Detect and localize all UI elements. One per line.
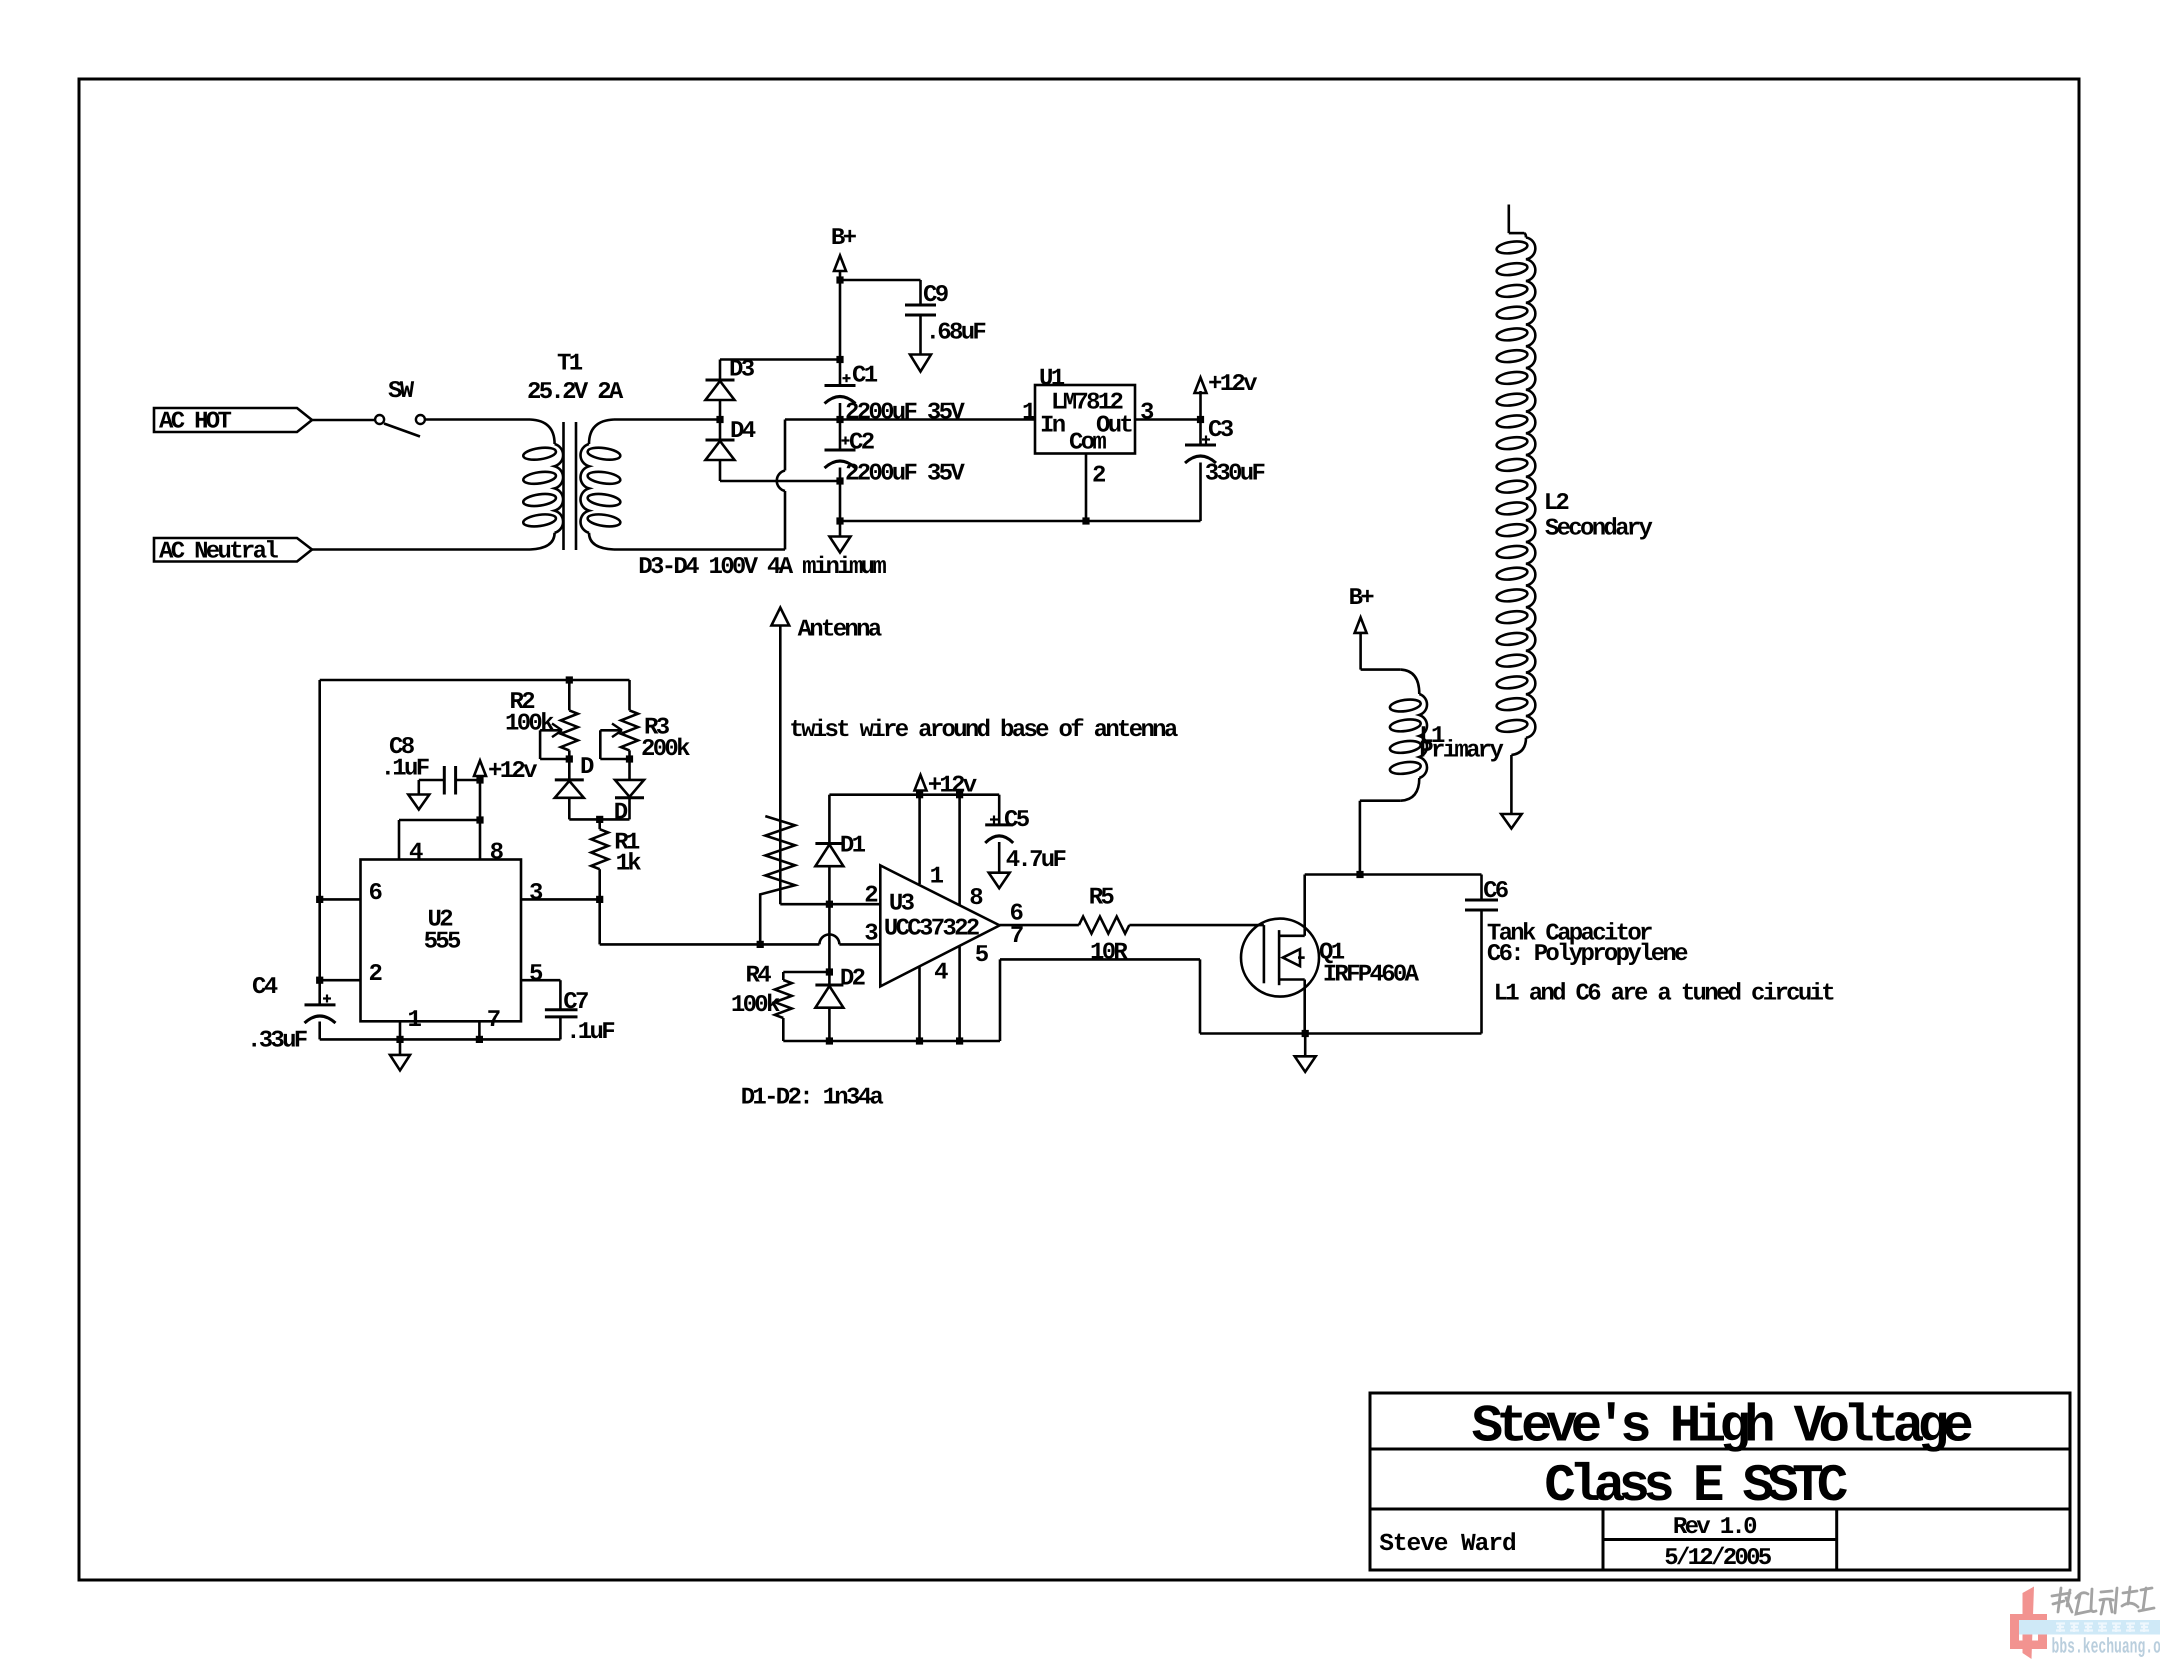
- svg-text:2: 2: [369, 961, 382, 988]
- svg-text:1k: 1k: [616, 851, 642, 878]
- svg-text:B+: B+: [831, 225, 857, 252]
- svg-text:Steve Ward: Steve Ward: [1379, 1531, 1516, 1558]
- svg-text:C2: C2: [849, 430, 874, 457]
- svg-text:U3: U3: [889, 891, 915, 918]
- svg-text:4.7uF: 4.7uF: [1006, 847, 1066, 874]
- svg-text:C7: C7: [563, 989, 588, 1016]
- svg-text:IRFP460A: IRFP460A: [1323, 961, 1420, 988]
- svg-text:C6: Polypropylene: C6: Polypropylene: [1487, 941, 1688, 968]
- svg-text:R5: R5: [1089, 884, 1115, 911]
- svg-text:SW: SW: [388, 378, 415, 405]
- svg-text:twist wire around base of ante: twist wire around base of antenna: [789, 717, 1177, 744]
- svg-text:D2: D2: [840, 966, 865, 993]
- svg-text:10R: 10R: [1090, 939, 1128, 966]
- svg-text:AC HOT: AC HOT: [159, 409, 232, 436]
- svg-text:Steve's High Voltage: Steve's High Voltage: [1472, 1397, 1973, 1457]
- svg-text:.1uF: .1uF: [566, 1019, 614, 1046]
- svg-text:D3-D4 100V 4A minimum: D3-D4 100V 4A minimum: [638, 554, 886, 581]
- svg-text:Rev 1.0: Rev 1.0: [1673, 1514, 1757, 1541]
- svg-text:Primary: Primary: [1419, 738, 1503, 765]
- svg-text:+12v: +12v: [928, 772, 977, 799]
- svg-text:200k: 200k: [641, 736, 690, 763]
- svg-text:bbs.kechuang.org: bbs.kechuang.org: [2052, 1637, 2160, 1660]
- svg-text:2200uF 35V: 2200uF 35V: [845, 461, 965, 488]
- svg-text:2: 2: [1092, 463, 1105, 490]
- svg-text:B+: B+: [1349, 585, 1375, 612]
- svg-text:Antenna: Antenna: [798, 616, 882, 643]
- svg-text:R4: R4: [746, 962, 772, 989]
- svg-text:D1: D1: [840, 832, 866, 859]
- svg-text:T1: T1: [557, 350, 583, 377]
- svg-text:+12v: +12v: [1208, 371, 1257, 398]
- svg-text:5/12/2005: 5/12/2005: [1664, 1545, 1772, 1572]
- svg-text:C5: C5: [1004, 807, 1030, 834]
- svg-text:2200uF 35V: 2200uF 35V: [845, 399, 965, 426]
- svg-text:25.2V 2A: 25.2V 2A: [527, 379, 624, 406]
- svg-text:7: 7: [1010, 923, 1023, 950]
- svg-text:100k: 100k: [505, 710, 554, 737]
- svg-text:L2: L2: [1544, 490, 1569, 517]
- svg-text:2: 2: [864, 883, 877, 910]
- svg-text:+12v: +12v: [488, 758, 537, 785]
- svg-text:7: 7: [487, 1007, 500, 1034]
- svg-text:L1 and C6 are a tuned circuit: L1 and C6 are a tuned circuit: [1494, 980, 1835, 1007]
- svg-text:UCC37322: UCC37322: [884, 916, 979, 943]
- svg-text:Secondary: Secondary: [1545, 515, 1653, 542]
- svg-text:.33uF: .33uF: [247, 1028, 307, 1055]
- svg-text:Class E SSTC: Class E SSTC: [1544, 1456, 1848, 1516]
- svg-text:C3: C3: [1208, 417, 1234, 444]
- svg-text:AC Neutral: AC Neutral: [159, 538, 278, 565]
- svg-text:U1: U1: [1039, 366, 1065, 393]
- svg-text:.1uF: .1uF: [381, 756, 429, 783]
- svg-text:555: 555: [424, 929, 461, 956]
- svg-text:C4: C4: [252, 974, 278, 1001]
- svg-text:In: In: [1040, 413, 1065, 440]
- svg-text:D1-D2: 1n34a: D1-D2: 1n34a: [741, 1084, 884, 1111]
- svg-text:330uF: 330uF: [1205, 460, 1265, 487]
- svg-text:.68uF: .68uF: [926, 319, 986, 346]
- svg-text:C1: C1: [852, 363, 878, 390]
- svg-text:Com: Com: [1069, 430, 1106, 457]
